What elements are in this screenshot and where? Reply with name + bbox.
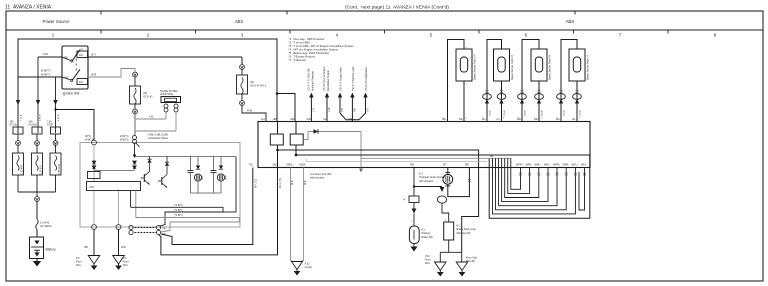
svg-text:WFL–: WFL– (581, 164, 588, 167)
svg-text:B-W(*7): B-W(*7) (41, 69, 51, 73)
svg-text:FR–: FR– (459, 118, 464, 121)
svg-text:IG2: IG2 (79, 81, 84, 84)
svg-text:Speed Sensor Front LH: Speed Sensor Front LH (511, 55, 514, 80)
svg-text:W–L (*2): W–L (*2) (255, 178, 258, 188)
svg-text:W-B: W-B (305, 180, 307, 185)
svg-text:Warning SW: Warning SW (457, 232, 472, 235)
wire main B+ feed: battery column up, along top, down to ECU +BS (18, 39, 295, 133)
ground G5 (435, 262, 447, 271)
connector circle (133, 72, 138, 77)
svg-text:with actuator: with actuator (419, 180, 433, 183)
svg-text:0.85L 0.5BL (0.5R): 0.85L 0.5BL (0.5R) (148, 134, 168, 137)
svg-text:0.85 G-W: 0.85 G-W (59, 163, 61, 174)
svg-text:MR: MR (465, 164, 469, 167)
svg-text:P/B: P/B (410, 164, 414, 167)
fusible link box 2 (32, 153, 43, 175)
relay SR (290, 134, 303, 145)
svg-text:(*6) B–Y Warning Light: (*6) B–Y Warning Light (352, 66, 355, 91)
battery (30, 237, 44, 259)
column boundary ticks on header bottom line (101, 30, 668, 34)
svg-text:1.25 B-R: 1.25 B-R (22, 165, 24, 174)
ABS ECU box (258, 122, 590, 168)
svg-text:RR+: RR+ (517, 118, 522, 121)
svg-text:Speed Sensor Rear RH: Speed Sensor Rear RH (549, 55, 552, 80)
svg-text:(*1 B/Y): (*1 B/Y) (174, 204, 183, 207)
svg-text:D5: D5 (251, 80, 255, 84)
svg-text:(*2) R–Y FL AM2 40A: (*2) R–Y FL AM2 40A (308, 68, 311, 91)
svg-text:Combination Meter: Combination Meter (148, 137, 168, 140)
relay SR output long wire / nest outer (296, 145, 590, 218)
pin box IG1 (77, 51, 88, 58)
ignition switch box (62, 46, 88, 89)
svg-text:(*5) B: (*5) B (541, 110, 543, 116)
split to grounds (449, 240, 462, 252)
svg-text:W-B: W-B (121, 246, 126, 249)
solenoid branch 2 (213, 157, 215, 171)
fusible link box 3 (50, 153, 61, 175)
motor return wire (448, 168, 470, 197)
zener Z1 (149, 163, 151, 172)
svg-text:IG1: IG1 (261, 118, 266, 121)
svg-text:B-Y: B-Y (92, 53, 97, 57)
mechanical link dashes (75, 54, 77, 71)
wire branch +BM (277, 94, 295, 122)
svg-text:(*4): (*4) (162, 228, 166, 231)
svg-text:GND1: GND1 (286, 164, 293, 167)
svg-text:(Cont. next page) 11 AVANZA: (Cont. next page) 11 AVANZA / XENIA (Con… (345, 5, 449, 11)
wire branch 2 vertical (37, 57, 39, 133)
speed sensor rear LH loop (561, 40, 577, 122)
wire trio b (351, 97, 353, 122)
nested sensor wire loops (493, 158, 576, 214)
ECU ground wires (290, 168, 292, 259)
header section ticks on top border (101, 11, 575, 15)
interior gray verticals (93, 145, 95, 182)
svg-text:NOISE FILTER: NOISE FILTER (160, 89, 178, 93)
svg-text:0.85 B: 0.85 B (58, 114, 60, 121)
svg-text:B-R: B-R (92, 73, 97, 77)
svg-text:1-R: 1-R (313, 108, 316, 112)
connector circles row (16, 141, 58, 146)
svg-text:W-B(*1): W-B(*1) (120, 139, 129, 142)
svg-text:6-W: 6-W (43, 52, 48, 56)
svg-text:Power Source: Power Source (43, 19, 71, 24)
svg-text:(*5) B: (*5) B (504, 110, 506, 116)
svg-text:WRR–: WRR– (563, 164, 571, 167)
connector circle battery feed (35, 197, 40, 202)
svg-text:Speed Sensor Rear LH: Speed Sensor Rear LH (587, 55, 590, 80)
solenoid branch 1 (190, 157, 192, 171)
wire IG2 out (gray) (88, 69, 135, 78)
fuse ECU-IG box (130, 86, 141, 104)
svg-text:TS1: TS1 (249, 164, 254, 167)
wire *2 into ECU +BS area (310, 97, 312, 122)
ground G1 (88, 256, 100, 265)
entry connector circles b (134, 134, 136, 136)
battery ground (36, 259, 38, 262)
speed sensor front RH loop (448, 40, 465, 122)
wire trio a (340, 97, 352, 120)
entry b arrow + vertical (133, 155, 137, 159)
sensor leg tiny labels (443, 118, 581, 120)
pin box IG2 (77, 79, 88, 85)
internal diode wire (gray) (303, 132, 361, 168)
svg-text:SFR: SFR (202, 175, 204, 180)
svg-text:FL+: FL+ (482, 118, 487, 121)
wire down with junctions (134, 114, 136, 135)
svg-text:Wire: Wire (425, 262, 431, 265)
svg-text:STOP: STOP (47, 125, 54, 127)
svg-text:(*1 B/Y): (*1 B/Y) (174, 214, 183, 217)
ground A32 (292, 262, 303, 270)
svg-text:(*5) B–R Gauge Meter: (*5) B–R Gauge Meter (339, 67, 342, 91)
TS wire wrap (161, 168, 253, 245)
connector tick pairs on stubs (519, 173, 586, 175)
svg-text:10A: 10A (29, 121, 34, 124)
wire to fusible link main (36, 201, 38, 219)
svg-text:(*5) B: (*5) B (524, 110, 526, 116)
svg-text:(*1 B/Y): (*1 B/Y) (174, 209, 183, 212)
svg-text:*7 : S (Export): *7 : S (Export) (289, 58, 307, 62)
CPU rect (87, 182, 141, 191)
svg-text:SRR: SRR (226, 175, 228, 180)
wire trio c (352, 97, 365, 120)
wire AM2 feed y77 (18, 76, 62, 78)
exit circles on bottom edge (92, 225, 97, 230)
svg-text:ECU-IG: ECU-IG (144, 95, 153, 99)
zener Z2 (166, 166, 168, 175)
parking brake column (413, 168, 415, 197)
transistor T2 (161, 177, 163, 185)
inline connectors L2 (483, 94, 492, 100)
svg-text:GAUGE: GAUGE (29, 124, 38, 127)
fuse box F3 (51, 127, 61, 134)
arrow branch2 (36, 100, 40, 105)
svg-text:FR+: FR+ (442, 118, 447, 121)
svg-text:B-L.1: B-L.1 (457, 225, 464, 228)
svg-text:GND2: GND2 (299, 164, 306, 167)
wires to fusible link boxes (18, 146, 56, 154)
transistor T1 (143, 174, 145, 182)
svg-text:CA: CA (323, 118, 327, 121)
svg-text:FL–: FL– (497, 118, 502, 121)
svg-text:W–R (*2): W–R (*2) (279, 178, 282, 188)
svg-text:WRL+: WRL+ (535, 164, 542, 167)
svg-text:(*7) B–W Combination: (*7) B–W Combination (365, 67, 368, 91)
svg-text:W-B: W-B (292, 180, 294, 185)
bottom pin labels (249, 164, 589, 167)
interior wires to B/Y loops (130, 191, 132, 208)
solenoid bottoms join (191, 192, 222, 194)
ground G6 (456, 262, 468, 271)
wires to bus (18, 175, 56, 197)
svg-text:RL–: RL– (572, 118, 577, 121)
parking brake switch pill (409, 226, 419, 244)
pin stubs from ECU bottom (521, 168, 585, 172)
svg-text:Speed Sensor Front RH: Speed Sensor Front RH (474, 54, 477, 80)
svg-text:(Cowl): (Cowl) (305, 266, 312, 269)
diode stack b (133, 161, 137, 169)
svg-text:CPU: CPU (89, 186, 94, 189)
fuse box (237, 75, 248, 94)
wire *3 (326, 97, 328, 122)
speed sensor rear RH loop (522, 40, 539, 122)
svg-text:(*7): (*7) (367, 108, 370, 112)
arrow branch1 (16, 100, 20, 105)
svg-text:WFL+: WFL+ (572, 164, 579, 167)
svg-text:Brake SW: Brake SW (422, 236, 434, 239)
bridge wire to ABS actuator IG (56, 110, 95, 141)
svg-text:ABS: ABS (566, 19, 575, 24)
diode stack a (92, 161, 96, 169)
SB wire wrap (159, 168, 278, 255)
svg-text:+BM: +BM (290, 118, 295, 121)
speed sensor front LH loop (487, 40, 502, 122)
shielded pair connectors (129, 225, 133, 229)
svg-text:1-B: 1-B (149, 115, 153, 119)
svg-text:R-W: R-W (247, 109, 253, 113)
relay MR (270, 134, 283, 145)
fuse box F2 (32, 127, 42, 134)
internal h-link (94, 170, 135, 172)
svg-text:E-1: E-1 (419, 173, 424, 176)
svg-text:Hydraulic brake booster: Hydraulic brake booster (419, 176, 446, 179)
svg-text:MT: MT (443, 164, 447, 167)
wire AM1 feed y57 (38, 56, 62, 58)
B/Y loop 2 (136, 218, 240, 233)
relay MR output long wire (278, 145, 479, 252)
svg-text:with actuator: with actuator (310, 177, 324, 180)
svg-text:BR: BR (85, 246, 89, 249)
svg-text:(*5) B: (*5) B (579, 110, 581, 116)
svg-text:Anti-theft Protector: Anti-theft Protector (312, 71, 315, 91)
svg-text:RR–: RR– (534, 118, 539, 121)
svg-text:1.25 B: 1.25 B (21, 114, 23, 121)
svg-text:RL+: RL+ (556, 118, 561, 121)
svg-text:1-W: 1-W (328, 107, 331, 112)
mini wrap far pin (579, 172, 585, 211)
svg-text:Wire: Wire (76, 264, 82, 267)
svg-text:WFR+: WFR+ (516, 164, 523, 167)
svg-text:ECU-B: ECU-B (10, 125, 18, 127)
entry connector circle a (92, 140, 97, 145)
svg-text:(IGNITION): (IGNITION) (160, 92, 173, 96)
fuse box F1 (13, 127, 23, 134)
svg-text:(FL MAIN): (FL MAIN) (40, 225, 52, 228)
diode (314, 129, 319, 134)
contact AM1 (62, 57, 71, 61)
B/Y loop 1 (131, 207, 223, 226)
svg-text:(*5) B: (*5) B (563, 110, 565, 116)
svg-text:WRL–: WRL– (544, 164, 551, 167)
wire to ECU IG1 pin (242, 105, 266, 121)
svg-text:(*6): (*6) (354, 108, 357, 112)
svg-text:0.85 B: 0.85 B (40, 114, 42, 121)
svg-text:Parking: Parking (422, 232, 431, 235)
svg-text:STP: STP (348, 118, 353, 121)
internal gray return wires (361, 157, 511, 159)
arrow branch3 (53, 100, 57, 105)
svg-text:SB1: SB1 (273, 164, 278, 167)
connector circle (240, 65, 245, 70)
wires down to grounds (93, 229, 95, 255)
svg-text:15A: 15A (10, 121, 15, 124)
wire IG1 out (88, 56, 242, 58)
svg-text:0.85 B-Y: 0.85 B-Y (41, 165, 43, 174)
svg-text:B-W(*7): B-W(*7) (41, 73, 51, 77)
svg-text:Wire: Wire (123, 264, 129, 267)
contact AM2 (62, 77, 71, 80)
svg-text:GND: GND (307, 118, 313, 121)
actuator box (80, 143, 240, 228)
internal bus to solenoids (135, 156, 222, 158)
svg-text:(*5) B: (*5) B (489, 110, 491, 116)
svg-text:W(*1): W(*1) (85, 135, 91, 138)
top pin labels (261, 118, 577, 121)
svg-text:Brake Fluid Level: Brake Fluid Level (457, 228, 477, 231)
svg-text:Battery: Battery (46, 248, 57, 252)
case ground (413, 244, 415, 247)
svg-text:IG1: IG1 (79, 54, 84, 57)
connector circle below (134, 104, 136, 109)
svg-text:+BS: +BS (273, 118, 278, 121)
svg-text:(*5): (*5) (341, 108, 344, 112)
svg-text:11 AVANZA / XENIA: 11 AVANZA / XENIA (5, 5, 52, 11)
wires to connectors (18, 134, 56, 141)
fusible link box 1 (13, 153, 24, 175)
column numbers (52, 33, 717, 38)
svg-text:7.5A: 7.5A (47, 121, 52, 124)
svg-text:D8: D8 (144, 91, 148, 95)
svg-text:ABS: ABS (235, 19, 244, 24)
svg-text:A-6 Stop Lamp SW: A-6 Stop Lamp SW (310, 173, 332, 176)
svg-text:W-B(*1): W-B(*1) (120, 135, 129, 138)
ground G2 (113, 256, 125, 265)
brake fluid level warning switch (444, 222, 454, 240)
svg-text:Wire RH: Wire RH (466, 260, 475, 263)
junction +B (276, 92, 279, 95)
svg-text:WRR+: WRR+ (553, 164, 561, 167)
svg-text:Immobiliser System: Immobiliser System (327, 70, 330, 91)
IC small rect (88, 172, 101, 179)
fusible link main symbol (36, 219, 38, 229)
svg-text:Ignition SW: Ignition SW (63, 92, 81, 96)
svg-text:P.1: P.1 (422, 229, 426, 232)
notes text block (289, 37, 355, 62)
svg-text:ECU-IG NO.2: ECU-IG NO.2 (251, 84, 267, 88)
svg-text:(*3) W–B AF w/ Engine: (*3) W–B AF w/ Engine (323, 66, 326, 91)
wire branch 3 vertical (55, 77, 57, 133)
svg-text:WFR–: WFR– (526, 164, 533, 167)
pump motor (447, 168, 449, 174)
feed to brake fluid branch (414, 186, 442, 188)
